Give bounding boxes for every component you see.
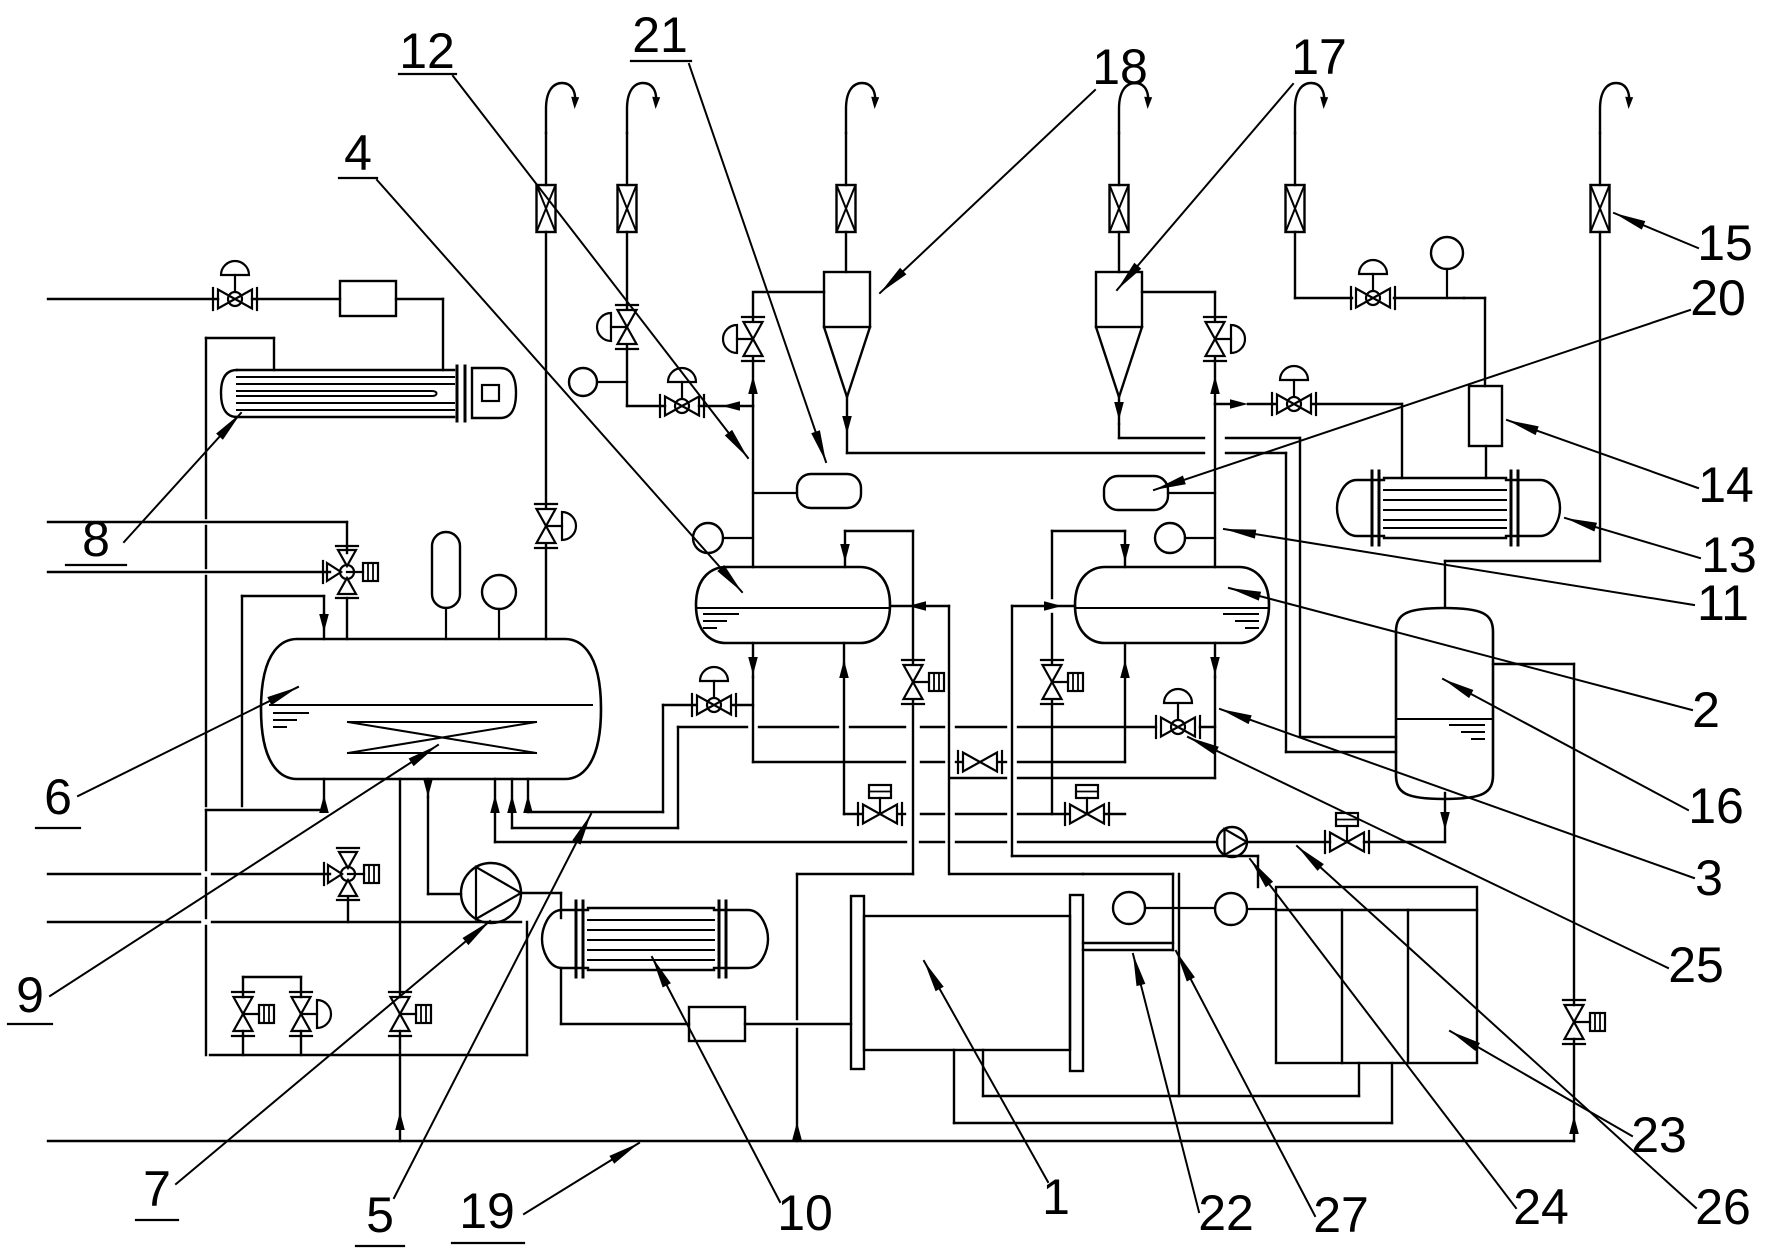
flame arrestor on stack S2 — [618, 185, 637, 232]
label 12 — [399, 23, 748, 458]
cooling unit 26 — [1276, 887, 1477, 1063]
svg-text:10: 10 — [777, 1185, 833, 1241]
label 17 — [1117, 29, 1347, 290]
drum 4 outlet nozzle — [748, 643, 758, 762]
pipe from S6 to tank 16 top — [1445, 561, 1600, 607]
svg-text:8: 8 — [82, 511, 110, 567]
valve on tank 16 side line — [1563, 1000, 1605, 1044]
liquid level line in drum 6 — [270, 704, 592, 706]
drum 11 outlet nozzle — [1210, 643, 1220, 778]
pump outlet line — [1247, 841, 1330, 843]
svg-text:21: 21 — [632, 7, 688, 63]
control valve on branch — [1272, 366, 1316, 415]
label 21 — [631, 7, 826, 462]
cooler 10 outlet loop — [561, 968, 689, 1024]
svg-text:4: 4 — [344, 125, 372, 181]
drain valve pair riser — [243, 977, 301, 1055]
control valve on line y=705 — [692, 667, 753, 716]
valve on stack S1 with diaphragm actuator — [535, 504, 576, 548]
drum 11 top bypass — [1052, 531, 1130, 664]
level hatch in tank 16 — [1450, 725, 1484, 739]
riser pipe to cyclone 17 — [1210, 292, 1220, 567]
equalizing line y=727 — [678, 726, 1215, 728]
label 15 — [1614, 213, 1753, 271]
tank 16 side outlet — [1493, 664, 1574, 1005]
liquid level line in tank 16 — [1397, 718, 1492, 720]
pressure gauge on drum 6 — [482, 575, 516, 639]
drum 4 inlet nozzle — [839, 643, 849, 814]
underflow loop B — [954, 1050, 1392, 1123]
pipe from S2 to riser with control valve — [627, 401, 753, 411]
filter unit 1 right plate — [1070, 895, 1083, 1071]
label 11 — [1224, 529, 1749, 631]
hanging valve below bypass right — [1041, 660, 1083, 814]
pump at tank 16 outlet — [1217, 827, 1247, 857]
storage drum 6 — [261, 639, 601, 779]
flame arrestor on stack S4 — [1110, 185, 1129, 232]
left standpipe x=206 — [205, 810, 207, 1055]
transfer line y=828 — [512, 727, 678, 828]
tank 16 inlet upper — [1300, 736, 1396, 738]
branch to condenser 13 — [1215, 399, 1402, 478]
svg-text:25: 25 — [1668, 937, 1724, 993]
svg-text:15: 15 — [1697, 215, 1753, 271]
instrument on separator 4 — [693, 523, 753, 553]
expansion box 14 — [1469, 386, 1502, 446]
feed line to control valve 8 — [48, 298, 218, 300]
drum 11 inlet nozzle — [1120, 643, 1130, 762]
drum 4 top bypass — [840, 531, 913, 664]
svg-text:24: 24 — [1513, 1179, 1569, 1235]
filter unit 1 head box — [950, 874, 1173, 950]
drum 11 side nozzle — [1012, 601, 1075, 856]
svg-text:14: 14 — [1698, 457, 1754, 513]
label 20 — [1154, 270, 1746, 490]
flame arrestor on stack S3 — [837, 185, 856, 232]
pressure instrument on stack S2 — [569, 368, 627, 396]
transfer line y=814 right valve — [956, 813, 1125, 815]
three-way valve above drum 6 — [323, 546, 378, 598]
inline instrument box — [340, 281, 396, 316]
drum 6 bottom loop — [206, 779, 329, 813]
svg-text:3: 3 — [1695, 850, 1723, 906]
svg-text:27: 27 — [1313, 1187, 1369, 1243]
vent stack line S5 (x=1295) with gooseneck — [1295, 83, 1352, 298]
cyclone separator 18 — [824, 272, 870, 453]
svg-text:19: 19 — [459, 1183, 515, 1239]
pipe to tank 16 bottom — [1364, 793, 1450, 842]
vent stack line S3 (x=846) with gooseneck — [846, 83, 879, 272]
feed line 1 to valve — [48, 522, 347, 553]
valve on stack S2 with diaphragm actuator — [597, 305, 638, 349]
drum 6 outlet to valve 5 line — [395, 779, 405, 1141]
drain header — [210, 1054, 527, 1056]
svg-text:6: 6 — [44, 769, 72, 825]
tank 16 side line to header — [1569, 1039, 1579, 1141]
label 26 — [1297, 846, 1751, 1235]
electric heater 8 shell — [221, 366, 465, 421]
vent stack line S1 (x=546) with gooseneck — [546, 83, 579, 639]
svg-text:20: 20 — [1690, 270, 1746, 326]
drum 6 top inlet loop — [242, 596, 329, 806]
svg-text:23: 23 — [1631, 1107, 1687, 1163]
svg-text:9: 9 — [16, 967, 44, 1023]
valve on riser x=753 with actuator — [723, 317, 764, 361]
heater 8 outlet pipe — [206, 338, 274, 806]
heater 8 terminal head — [472, 368, 516, 418]
cooling unit feed — [1012, 856, 1258, 887]
cyclone separator 17 — [1096, 272, 1142, 438]
drum 6 inlet risers — [490, 779, 533, 842]
drain valve 2 — [290, 992, 331, 1036]
flame arrestor on stack S5 — [1286, 185, 1305, 232]
buffer tank 16 — [1396, 608, 1493, 799]
long transfer line y=842 — [495, 841, 1217, 843]
vent stack line S2 (x=627) with gooseneck — [627, 83, 660, 406]
safety valve on drum 6 — [432, 532, 460, 639]
level hatch in drum 11 — [1224, 614, 1258, 628]
liquid level line in drum 11 — [1076, 607, 1268, 609]
feed line 2 to valve — [48, 571, 330, 573]
control valve on heater 8 line — [213, 261, 257, 310]
pump 7 discharge to cooler 10 — [521, 893, 561, 918]
pipe valve to box — [252, 298, 340, 300]
cyclone 18 dust outlet pipe — [847, 453, 1286, 752]
drain valve 1 — [232, 992, 274, 1036]
label 19 — [452, 1143, 639, 1243]
control valve on S2 branch — [660, 368, 704, 417]
svg-text:26: 26 — [1695, 1179, 1751, 1235]
control valve on line y=727 — [1156, 689, 1200, 738]
pressure gauge on S5 line — [1431, 237, 1463, 298]
label 2 — [1229, 588, 1720, 738]
cyclone 17 dust outlet pipe — [1119, 438, 1300, 737]
cross line y=778 — [950, 777, 1215, 779]
label 6 — [36, 687, 298, 828]
label 7 — [136, 921, 490, 1220]
instrument circle B — [1145, 893, 1276, 925]
svg-text:16: 16 — [1688, 778, 1744, 834]
label 25 — [1188, 737, 1724, 993]
gate valve on line y=762 — [958, 751, 1002, 773]
label 16 — [1443, 679, 1744, 834]
pump 7 — [461, 863, 521, 923]
separator drum 4 — [696, 567, 890, 643]
gate valve with box on y=814 right — [1065, 785, 1109, 825]
level hatch in drum 6 — [274, 713, 308, 727]
flame arrestor on stack S1 — [537, 185, 556, 232]
vent stack line S4 (x=1119) with gooseneck — [1119, 83, 1152, 272]
label 4 — [339, 125, 742, 592]
valve on pump line — [1325, 813, 1369, 853]
underflow loop A — [983, 1050, 1359, 1096]
vent stack line S6 (x=1600) with gooseneck — [1600, 83, 1633, 561]
label 5 — [356, 814, 591, 1246]
label 9 — [8, 745, 438, 1024]
pipe box to heater 8 — [396, 299, 443, 370]
svg-text:18: 18 — [1092, 39, 1148, 95]
label 1 — [924, 961, 1070, 1225]
transfer line y=812 — [528, 705, 695, 812]
trap outlet pipe — [745, 1023, 851, 1025]
heating coil in drum 6 — [348, 722, 536, 753]
tank 16 inlet lower — [1286, 751, 1396, 753]
condenser 13 — [1337, 471, 1560, 545]
liquid level line in drum 4 — [697, 607, 889, 609]
utility line y=874 — [48, 873, 330, 875]
riser x=797 — [792, 874, 913, 1141]
knock-out pot 21 — [753, 474, 861, 508]
cyclone 17 outlet pipe — [1142, 291, 1215, 293]
valve on drain x=400 — [389, 992, 431, 1036]
gate valve with box on y=814 left — [858, 785, 902, 825]
control valve on S5 line — [1351, 260, 1464, 309]
transfer line y=762 with valve — [753, 761, 1125, 763]
hanging valve below bypass left — [902, 660, 944, 874]
svg-text:11: 11 — [1697, 575, 1749, 631]
label 24 — [1250, 859, 1569, 1235]
valve on riser x=1215 with actuator — [1204, 317, 1245, 361]
label 18 — [880, 39, 1148, 293]
main bottom header 19 — [48, 1140, 1574, 1142]
svg-text:17: 17 — [1291, 29, 1347, 85]
riser pipe to cyclone 18 — [748, 292, 758, 567]
condenser 13 top stem — [1485, 446, 1487, 478]
cross valve on line y=874 — [324, 848, 379, 900]
valve to drum 6 top — [346, 598, 348, 639]
label 14 — [1507, 420, 1754, 513]
instrument on separator 11 — [1155, 523, 1215, 553]
level hatch in drum 4 — [704, 614, 738, 628]
svg-text:22: 22 — [1198, 1185, 1254, 1241]
riser x=527 to drain header — [526, 922, 528, 1055]
transfer line y=814 left valve — [844, 813, 944, 815]
label 22 — [1133, 954, 1254, 1241]
svg-text:7: 7 — [143, 1161, 171, 1217]
drum 6 outlet to pump 7 — [423, 779, 461, 894]
label 8 — [66, 413, 241, 567]
label 13 — [1565, 518, 1757, 583]
utility line y=922 — [48, 898, 521, 922]
svg-text:2: 2 — [1692, 682, 1720, 738]
inline trap box — [689, 1007, 745, 1041]
separator drum 11 — [1075, 567, 1269, 643]
flame arrestor on stack S6 — [1591, 185, 1610, 232]
svg-text:5: 5 — [366, 1187, 394, 1243]
drum 4 side nozzle — [891, 601, 949, 874]
pipe S5 to box 14 — [1464, 298, 1485, 386]
filter unit 1 left plate — [851, 896, 864, 1069]
head box standpipe — [1178, 874, 1180, 1096]
label 23 — [1450, 1031, 1687, 1163]
filter unit 1 body — [864, 916, 1070, 1050]
label 10 — [652, 957, 833, 1241]
cyclone 18 inlet pipe — [755, 291, 824, 293]
knock-out pot 20 — [1104, 476, 1215, 510]
label 27 — [1176, 951, 1369, 1243]
instrument circle A — [1113, 892, 1145, 924]
svg-text:12: 12 — [399, 23, 455, 79]
cooler 10 shell — [542, 901, 768, 977]
label 3 — [1220, 709, 1723, 906]
